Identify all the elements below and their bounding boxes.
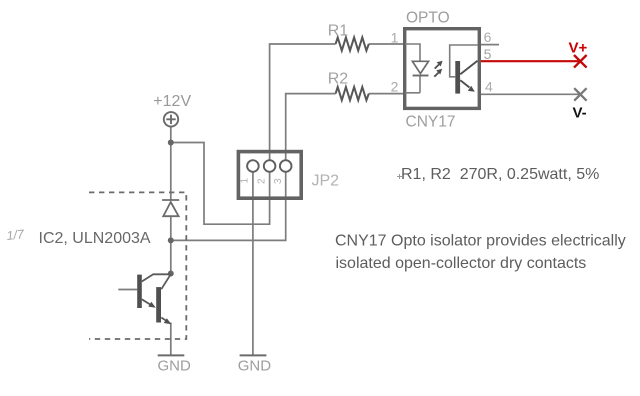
- GND symbol right: [240, 354, 267, 356]
- wire: JP2 pin3 up then right through R2 to opto pin2: [286, 94, 404, 161]
- svg-text:JP2: JP2: [312, 173, 340, 190]
- diode D (flyback): [162, 200, 179, 216]
- svg-text:V+: V+: [569, 40, 588, 57]
- dashed box IC2: [89, 192, 186, 339]
- svg-text:GND: GND: [238, 358, 272, 375]
- pin 5 red wire to V+: [480, 60, 581, 62]
- svg-text:R1: R1: [328, 23, 349, 40]
- svg-text:4: 4: [485, 79, 493, 95]
- gray X terminal V-: [574, 88, 586, 101]
- wire: +12V stem down through diode to transistor collector node: [170, 127, 172, 274]
- transistor Q2 base bar: [156, 287, 161, 322]
- wire: T2 emitter down to GND: [170, 323, 172, 356]
- svg-text:2: 2: [257, 178, 268, 184]
- junction dot below diode: [168, 237, 174, 243]
- JP2 box outline: [238, 152, 301, 199]
- svg-text:isolated open-collector dry co: isolated open-collector dry contacts: [336, 255, 587, 272]
- junction dot collector node: [168, 271, 174, 277]
- svg-text:5: 5: [484, 46, 492, 62]
- red X terminal V+: [574, 55, 587, 68]
- wire: diode-bottom junction right to JP2 pin3 bottom: [171, 172, 286, 241]
- pin 4 wire to V-: [480, 93, 581, 95]
- opto phototransistor base loop: [450, 45, 478, 77]
- svg-text:IC2, ULN2003A: IC2, ULN2003A: [39, 230, 151, 247]
- transistor Q1 emitter: [142, 299, 151, 305]
- transistor Q2 emitter: [161, 318, 167, 322]
- opto phototransistor bar: [455, 61, 460, 94]
- svg-text:R2: R2: [328, 71, 349, 88]
- opto LED triangle: [412, 61, 428, 73]
- svg-text:OPTO: OPTO: [406, 10, 450, 27]
- svg-text:6: 6: [484, 29, 492, 45]
- opto light arrow 2: [434, 73, 438, 77]
- opto LED anode path: [405, 44, 420, 93]
- svg-text:GND: GND: [158, 358, 192, 375]
- opto box U outline: [405, 29, 480, 109]
- svg-text:CNY17 Opto isolator provides e: CNY17 Opto isolator provides electricall…: [335, 233, 626, 250]
- JP2 pad circle 1: [247, 160, 259, 172]
- JP2 pad circle 2: [264, 160, 276, 172]
- JP2 pad circle 3: [280, 160, 292, 172]
- svg-text:3: 3: [273, 178, 284, 184]
- wire: JP2 pin1 down to GND: [252, 172, 254, 356]
- svg-text:1: 1: [240, 178, 251, 184]
- svg-text:V-: V-: [573, 105, 587, 122]
- svg-text:1: 1: [391, 30, 399, 46]
- wire: +12V junction right, down, right to JP2 pin2 bottom: [171, 143, 270, 225]
- cursor artifact: [397, 174, 402, 179]
- svg-text:1/7: 1/7: [6, 227, 26, 243]
- opto emitter: [460, 80, 469, 87]
- wire: T1 base lead: [118, 289, 137, 291]
- svg-text:+12V: +12V: [153, 93, 191, 110]
- pin 6 stub: [479, 44, 499, 46]
- transistor Q2 collector: [161, 274, 171, 289]
- +12V supply symbol: [164, 112, 178, 126]
- junction dot at +12V tee: [168, 140, 174, 146]
- opto LED cathode bar: [413, 75, 429, 77]
- resistor R1 zigzag: [336, 37, 369, 50]
- wire: JP2 pin2 up then right through R1 to opto pin1: [270, 44, 404, 160]
- svg-text:2: 2: [391, 79, 399, 95]
- GND symbol left: [158, 354, 185, 356]
- opto light arrow 1: [435, 64, 439, 68]
- transistor Q1 base bar: [137, 275, 142, 308]
- svg-text:R1, R2 270R, 0.25watt, 5%: R1, R2 270R, 0.25watt, 5%: [401, 166, 599, 183]
- resistor R2 zigzag: [336, 87, 369, 100]
- transistor Q1 collector: [142, 274, 171, 281]
- opto collector: [460, 61, 477, 74]
- svg-text:CNY17: CNY17: [406, 113, 456, 130]
